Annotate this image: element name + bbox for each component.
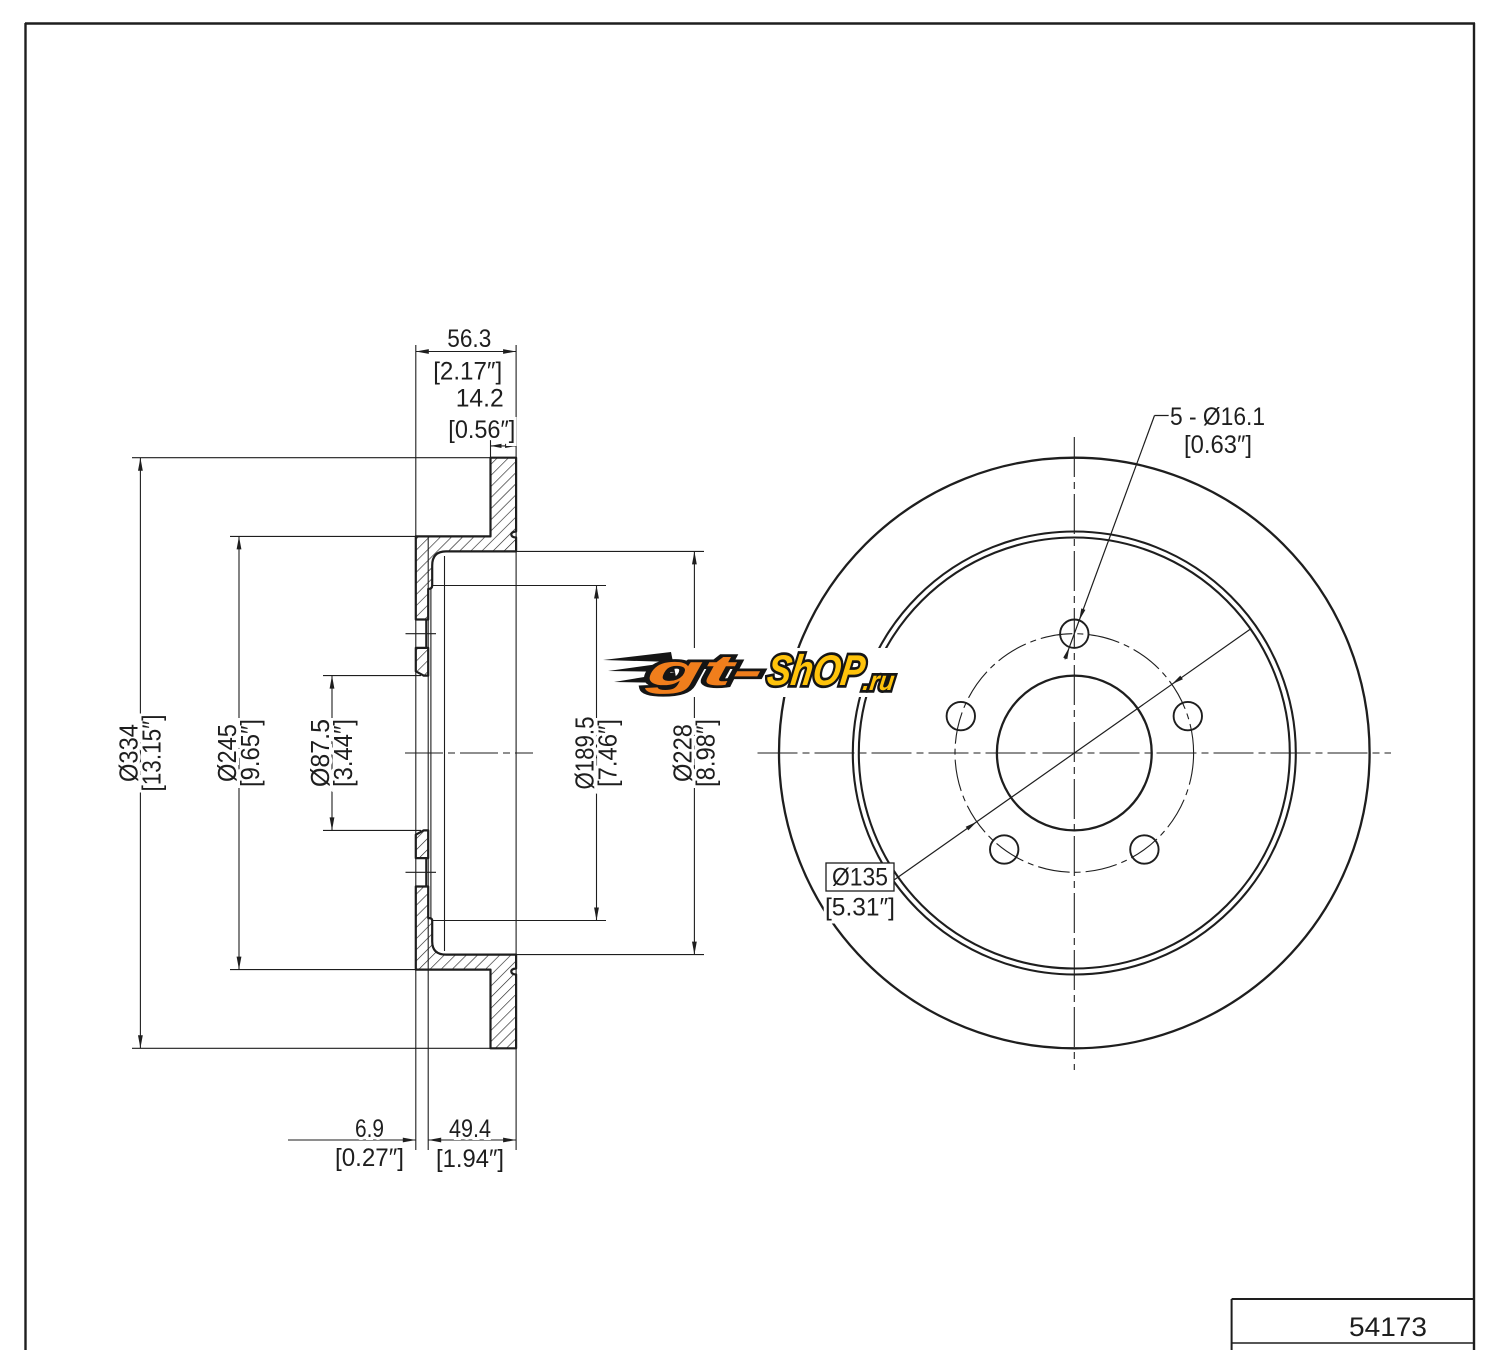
flange segment between top bolt hole and bore (hatched) <box>416 648 428 676</box>
outer circle &#216;334 <box>779 458 1370 1049</box>
front view centerlines <box>758 752 1392 754</box>
dim line 56.3 <box>416 351 516 353</box>
svg-text:[3.44″]: [3.44″] <box>328 719 358 787</box>
center bore &#216;87.5 <box>997 676 1152 831</box>
five bolt holes &#216;16.1 <box>1060 620 1088 648</box>
dim text &#216;228 [8.98"] rotated <box>667 724 697 782</box>
svg-text:[1.94″]: [1.94″] <box>436 1145 504 1173</box>
dim text &#216;245 [9.65"] rotated <box>212 724 242 782</box>
dim text &#216;189.5 [7.46"] rotated <box>570 717 600 790</box>
svg-text:[0.27″]: [0.27″] <box>335 1144 404 1172</box>
groove outer circle <box>853 532 1296 975</box>
svg-text:[5.31″]: [5.31″] <box>825 894 895 922</box>
dim line 6.9 <box>288 1139 416 1141</box>
svg-text:49.4: 49.4 <box>449 1115 491 1143</box>
svg-text:[7.46″]: [7.46″] <box>593 719 623 787</box>
svg-text:[0.56″]: [0.56″] <box>448 416 515 444</box>
groove inner circle <box>859 538 1290 969</box>
dim line &#216;334 <box>139 458 141 1049</box>
bolt circle &#216;135 (dash-dot) <box>955 634 1194 873</box>
dim line &#216;228 <box>693 551 695 954</box>
svg-text:[13.15″]: [13.15″] <box>136 715 166 792</box>
dim line &#216;245 <box>238 536 240 969</box>
gt-shop.ru watermark logo <box>602 648 896 697</box>
logo speed lines <box>603 652 673 662</box>
svg-text:.ru: .ru <box>861 665 897 696</box>
brake disc section: band+skirt+flange upper region (hatched) <box>416 458 516 620</box>
boxed label &#216;135 <box>826 863 894 891</box>
svg-text:gt-: gt- <box>642 647 766 695</box>
leader 5-&#216;16.1 <box>1155 415 1172 417</box>
dim text &#216;87.5 [3.44"] rotated <box>305 719 335 787</box>
svg-text:6.9: 6.9 <box>355 1115 384 1143</box>
bolt hole back edge lines <box>425 620 427 648</box>
svg-text:5 - Ø16.1: 5 - Ø16.1 <box>1170 403 1265 431</box>
logo text .ru <box>861 665 897 696</box>
bolt hole centermark ticks <box>406 633 437 635</box>
logo text ShOP <box>764 647 868 695</box>
dim line &#216;189.5 <box>596 586 598 921</box>
svg-text:[9.65″]: [9.65″] <box>235 719 265 787</box>
svg-text:14.2: 14.2 <box>456 384 504 412</box>
svg-text:[8.98″]: [8.98″] <box>690 719 720 787</box>
band+skirt+flange lower region (hatched) <box>416 887 516 1049</box>
inner visible edges of hat <box>430 589 432 918</box>
svg-text:56.3: 56.3 <box>447 325 491 353</box>
flange segment between bore and bottom bolt hole (hatched) <box>416 830 428 858</box>
dim line &#216;87.5 <box>331 676 333 831</box>
&#216;135 diameter leader <box>894 629 1251 880</box>
svg-text:[2.17″]: [2.17″] <box>433 358 502 386</box>
svg-text:54173: 54173 <box>1349 1312 1427 1342</box>
svg-text:ShOP: ShOP <box>764 647 868 695</box>
drawing frame border <box>24 23 26 1350</box>
svg-text:Ø135: Ø135 <box>832 864 888 892</box>
section view centerline <box>405 752 533 754</box>
dim line 49.4 <box>428 1139 516 1141</box>
svg-text:[0.63″]: [0.63″] <box>1184 431 1252 459</box>
logo text gt- <box>642 647 766 695</box>
dim line 14.2 <box>491 445 517 447</box>
dim text &#216;334 [13.15"] rotated <box>113 724 143 782</box>
title block <box>1232 1298 1474 1300</box>
extension lines, section view <box>415 345 417 1150</box>
